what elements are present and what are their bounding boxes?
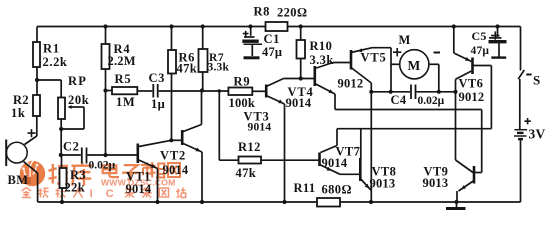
node VT2 base junction (169, 138, 173, 142)
svg-text:R11: R11 (294, 181, 316, 195)
wire VT7/VT8 collector run (337, 128, 491, 130)
svg-text:VT2: VT2 (160, 149, 186, 163)
transistor VT9 (456, 160, 474, 173)
transistor VT3 (265, 85, 268, 98)
svg-text:C5: C5 (472, 29, 487, 43)
svg-text:22k: 22k (65, 181, 86, 195)
resistor R8 (266, 22, 288, 31)
svg-text:M: M (399, 33, 411, 47)
transistor VT7 (336, 129, 338, 146)
svg-text:C1: C1 (264, 32, 280, 46)
label battery (524, 118, 530, 124)
node R1 bottom junction (35, 78, 39, 82)
resistor R3 (61, 155, 63, 168)
svg-text:C3: C3 (149, 71, 165, 85)
svg-text:9013: 9013 (423, 176, 449, 190)
resistor R2 (36, 80, 38, 95)
svg-text:9012: 9012 (459, 90, 485, 104)
battery 3V (515, 129, 528, 131)
transistor VT5 (350, 50, 353, 70)
svg-text:1M: 1M (116, 95, 135, 109)
svg-text:220Ω: 220Ω (277, 6, 307, 20)
svg-text:R12: R12 (238, 140, 261, 154)
svg-text:VT5: VT5 (361, 51, 387, 65)
wire top supply rail (37, 26, 266, 28)
svg-text:0.02μ: 0.02μ (89, 160, 116, 172)
svg-text:1k: 1k (11, 106, 25, 120)
wire left rail drop to R1 (36, 27, 38, 43)
svg-text:9014: 9014 (248, 122, 272, 134)
svg-text:1μ: 1μ (151, 97, 165, 111)
label motor plus (393, 48, 401, 56)
svg-text:20k: 20k (68, 93, 89, 107)
svg-text:9014: 9014 (286, 96, 312, 110)
svg-text:680Ω: 680Ω (322, 183, 352, 197)
svg-text:M: M (408, 58, 421, 73)
transistor VT6 (453, 27, 455, 54)
svg-text:9012: 9012 (338, 77, 364, 91)
transistor VT2 (171, 139, 181, 141)
capacitor C2 (59, 153, 63, 157)
svg-text:C: C (106, 188, 114, 200)
node R9 line junction (200, 88, 204, 92)
svg-text:I: I (90, 188, 93, 200)
svg-text:9014: 9014 (322, 156, 348, 170)
transistor VT8 (359, 158, 362, 181)
resistor R11 (38, 201, 317, 203)
node VT4 base junction (299, 76, 303, 80)
microphone BM (6, 142, 27, 163)
svg-text:C4: C4 (391, 93, 407, 107)
svg-text:3.3k: 3.3k (208, 62, 230, 74)
capacitor C1 (250, 27, 252, 36)
node R12 tap junction (218, 89, 222, 93)
capacitor C4 (371, 91, 410, 93)
svg-text:47μ: 47μ (262, 45, 282, 59)
wire R1 junction to RP (37, 79, 61, 81)
resistor R6 (171, 27, 173, 51)
node dots on top rail (103, 24, 107, 28)
label C1 plus (243, 31, 249, 37)
resistor R10 (300, 27, 302, 41)
resistor R4 (105, 27, 107, 45)
svg-text:3.3k: 3.3k (310, 53, 334, 67)
svg-text:C2: C2 (63, 140, 79, 154)
svg-text:9013: 9013 (370, 177, 396, 191)
svg-text:100k: 100k (229, 96, 256, 110)
svg-text:9014: 9014 (163, 163, 189, 177)
watermark logo disc (20, 158, 45, 186)
wire VT4 emitter run (335, 109, 482, 111)
svg-text:47k: 47k (236, 166, 257, 180)
svg-text:3V: 3V (529, 127, 546, 142)
svg-text:R9: R9 (234, 75, 251, 89)
capacitor C5 (497, 27, 499, 38)
svg-text:R10: R10 (310, 39, 333, 53)
potentiometer RP (58, 98, 65, 120)
wire C3 to R9 (159, 90, 229, 92)
resistor R12 (218, 91, 220, 160)
capacitor C3 (152, 84, 154, 98)
resistor R1 (33, 42, 40, 67)
resistor R7 (202, 27, 204, 50)
ground (456, 202, 458, 208)
svg-text:47μ: 47μ (471, 45, 490, 57)
svg-text:R8: R8 (254, 5, 270, 19)
watermark big text 维库电子市场网 (49, 162, 181, 186)
transistor VT1 (137, 144, 140, 164)
label mic plus (28, 129, 36, 137)
svg-text:R2: R2 (13, 93, 29, 107)
switch S (520, 27, 522, 71)
svg-text:9014: 9014 (126, 182, 152, 196)
svg-text:0.02μ: 0.02μ (418, 95, 445, 107)
svg-text:R1: R1 (43, 42, 60, 56)
svg-text:S: S (533, 73, 540, 88)
resistor R5 (106, 90, 113, 92)
motor M (400, 50, 429, 79)
resistor R9 (228, 88, 252, 96)
svg-text:R5: R5 (115, 72, 132, 86)
svg-text:BM: BM (8, 173, 29, 187)
svg-text:VT6: VT6 (459, 77, 484, 91)
transistor VT4 (313, 66, 316, 86)
watermark bottom row 全球最大IC采购网 (22, 188, 186, 201)
svg-text:RP: RP (68, 74, 87, 88)
svg-text:47k: 47k (177, 62, 198, 76)
svg-text:2.2k: 2.2k (43, 55, 68, 69)
svg-text:2.2M: 2.2M (108, 54, 136, 68)
